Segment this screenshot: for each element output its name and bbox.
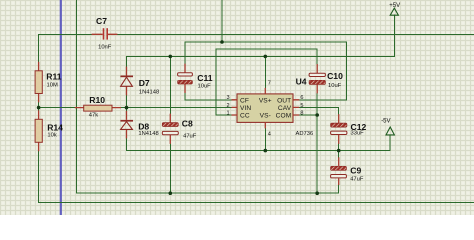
svg-text:R14: R14 bbox=[47, 122, 63, 132]
svg-text:-5V: -5V bbox=[381, 119, 390, 125]
svg-text:8: 8 bbox=[300, 111, 303, 117]
svg-text:U4: U4 bbox=[296, 77, 307, 87]
svg-text:D7: D7 bbox=[139, 78, 150, 88]
wire: +5V rail horizontal bbox=[127, 55, 395, 57]
svg-text:AD736: AD736 bbox=[296, 131, 314, 137]
wire: C11 bottom to chip CF pin bbox=[185, 99, 232, 101]
svg-text:D8: D8 bbox=[138, 121, 149, 131]
wire: CAV down to C12 top bbox=[338, 107, 340, 114]
pin stubs bbox=[232, 88, 300, 128]
junction: R11/R14/R10 node bbox=[37, 106, 41, 110]
wire: -5V rail horizontal bbox=[127, 150, 391, 152]
svg-text:10k: 10k bbox=[47, 133, 56, 139]
svg-text:10nF: 10nF bbox=[98, 44, 112, 50]
capacitor C12 bbox=[331, 114, 367, 144]
svg-text:3: 3 bbox=[226, 95, 229, 101]
wire: R11 bottom to node junction bbox=[38, 102, 40, 107]
power -5V bbox=[381, 119, 394, 135]
svg-text:C11: C11 bbox=[197, 73, 213, 83]
svg-text:47uF: 47uF bbox=[183, 134, 197, 140]
svg-text:47uF: 47uF bbox=[350, 176, 364, 182]
svg-text:R11: R11 bbox=[46, 71, 62, 81]
svg-text:7: 7 bbox=[268, 81, 271, 87]
wire: vertical stub from top edge to feedback wire bbox=[221, 0, 223, 42]
svg-text:VIN: VIN bbox=[240, 105, 251, 112]
svg-text:10uF: 10uF bbox=[198, 83, 212, 89]
svg-text:C8: C8 bbox=[182, 119, 193, 129]
svg-text:2: 2 bbox=[226, 103, 229, 109]
wire: R10 right lead to chip VIN pin bbox=[121, 107, 232, 109]
wire: C12 bottom lead to -5V rail bbox=[338, 144, 340, 151]
svg-text:1N4148: 1N4148 bbox=[139, 89, 159, 95]
wire: node junction down to R14 top bbox=[38, 108, 40, 111]
wire: input top horizontal right of C7 to right edge bbox=[117, 33, 474, 35]
svg-text:C7: C7 bbox=[96, 16, 107, 26]
wire: D7 cathode up to +5V rail bbox=[126, 56, 128, 66]
svg-text:R10: R10 bbox=[89, 95, 105, 105]
diode D8 bbox=[120, 111, 158, 138]
wire: C11 bottom lead down to CF wire bbox=[184, 93, 186, 100]
svg-text:6: 6 bbox=[300, 95, 303, 101]
wire: VS+ pin7 up to +5V rail bbox=[264, 56, 266, 88]
wire: +5V riser to +5V symbol bbox=[393, 15, 395, 56]
wire: OUT feedback horizontal at top bbox=[185, 41, 347, 43]
svg-text:VS+: VS+ bbox=[259, 97, 272, 104]
wire: mid bottom rail bbox=[76, 192, 338, 194]
resistor R10 bbox=[75, 95, 121, 118]
diode D7 bbox=[120, 67, 159, 96]
junction: COM column on bottom rail bbox=[315, 191, 319, 195]
wire: C11 top lead up to feedback wire bbox=[184, 42, 186, 64]
junction: COM/C10 node bbox=[315, 113, 319, 117]
junction: D7/D8 VIN node bbox=[125, 106, 129, 110]
svg-text:CF: CF bbox=[240, 97, 249, 104]
op-amp chip U4 AD736 bbox=[226, 77, 313, 138]
wire: OUT pin to feedback vertical bbox=[299, 99, 346, 101]
wire: feedback wire down to OUT pin level bbox=[346, 42, 348, 100]
resistor R14 bbox=[35, 110, 63, 151]
wire: C9 top lead from -5V rail bbox=[338, 151, 340, 158]
junction: feedback/top stub bbox=[220, 40, 224, 44]
junction: VS- on -5V rail bbox=[264, 149, 268, 153]
capacitor C7 bbox=[92, 16, 118, 50]
svg-text:CC: CC bbox=[240, 113, 250, 120]
capacitor C9 bbox=[331, 157, 364, 185]
svg-text:1N4148: 1N4148 bbox=[138, 131, 158, 137]
wire: C8 top lead from +5V rail bbox=[169, 56, 171, 113]
wire: COM pin to COM node bbox=[299, 114, 317, 116]
svg-text:5: 5 bbox=[300, 103, 303, 109]
wire: CC net horizontal top bbox=[216, 48, 317, 50]
capacitor C11 bbox=[178, 64, 213, 93]
wire: CC net vertical bbox=[215, 49, 217, 115]
svg-text:33uF: 33uF bbox=[351, 130, 365, 136]
wire: vertical from input wire down to R11 top bbox=[38, 34, 40, 62]
wire: D7 anode down to VIN node bbox=[126, 95, 128, 107]
svg-text:C10: C10 bbox=[327, 71, 343, 81]
capacitor C8 bbox=[162, 114, 196, 144]
svg-text:C9: C9 bbox=[350, 165, 361, 175]
svg-text:VS-: VS- bbox=[260, 113, 271, 120]
junction: C8 on bottom rail bbox=[169, 191, 173, 195]
wire: C10 bottom lead down through COM node to bottom rail bbox=[316, 93, 318, 193]
blue page border line bbox=[60, 0, 62, 215]
svg-text:47k: 47k bbox=[89, 112, 98, 118]
wire: -5V rail riser to -5V symbol bbox=[389, 135, 391, 150]
svg-text:CAV: CAV bbox=[278, 105, 292, 112]
wire: lower ground rail to right edge bbox=[39, 201, 474, 203]
wire: C8 bottom lead down to bottom rail bbox=[169, 144, 171, 193]
junction: VS+ on +5V rail bbox=[264, 55, 268, 59]
svg-text:4: 4 bbox=[268, 131, 271, 137]
wire: C9 bottom lead to bottom rail bbox=[338, 185, 340, 193]
wire: CAV pin horizontal bbox=[299, 106, 338, 108]
capacitor C10 bbox=[309, 64, 343, 93]
wire: VS- pin4 down to -5V rail bbox=[264, 128, 266, 150]
svg-text:OUT: OUT bbox=[277, 97, 291, 104]
wire: R14 bottom down to lower rail corner bbox=[38, 151, 40, 202]
wire: VIN node to R10 left lead bbox=[39, 107, 75, 109]
svg-text:1: 1 bbox=[226, 111, 229, 117]
svg-text:+5V: +5V bbox=[389, 3, 400, 9]
resistor R11 bbox=[35, 62, 62, 103]
wire: D8 cathode up to VIN node bbox=[126, 108, 128, 111]
junction: C8 top on +5V rail bbox=[169, 55, 173, 59]
wire: CC net to chip CC pin bbox=[216, 114, 232, 116]
wire: C10 top lead from CC net bbox=[316, 49, 318, 64]
junction: C12/C9 on -5V rail bbox=[337, 149, 341, 153]
power +5V bbox=[389, 3, 400, 15]
wire: long vertical from top edge down at x=76 bbox=[75, 0, 77, 193]
svg-text:10uF: 10uF bbox=[328, 83, 342, 89]
svg-text:COM: COM bbox=[276, 113, 292, 120]
svg-text:10M: 10M bbox=[47, 82, 58, 88]
wire: D8 anode down to -5V rail bbox=[126, 138, 128, 150]
wire: input top horizontal left of C7 bbox=[39, 33, 92, 35]
